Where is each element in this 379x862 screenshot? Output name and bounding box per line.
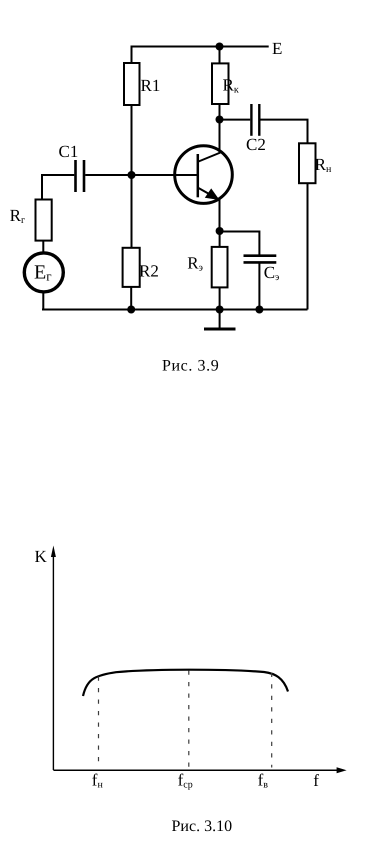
wire R1 bottom to base junction	[131, 105, 133, 175]
svg-text:fср: fср	[178, 771, 193, 791]
wire source to C1	[42, 175, 74, 200]
wire supply top rail	[131, 46, 269, 48]
svg-text:Rг: Rг	[10, 206, 25, 226]
svg-text:Рис. 3.9: Рис. 3.9	[162, 358, 219, 375]
wire R1 top stub	[131, 46, 133, 64]
wire base	[132, 174, 198, 176]
svg-text:Eг: Eг	[34, 262, 52, 284]
svg-text:E: E	[272, 39, 282, 58]
node emitter junction	[216, 227, 224, 235]
svg-text:Rн: Rн	[315, 155, 332, 175]
transistor VT1	[175, 146, 233, 204]
source Eg	[24, 253, 63, 292]
wire emitter node to Re	[219, 231, 221, 247]
svg-text:R2: R2	[139, 262, 159, 281]
resistor Rk	[212, 63, 229, 104]
axis f horizontal	[53, 769, 340, 771]
wire Rg to Eg	[42, 241, 44, 252]
resistor R1	[124, 63, 140, 105]
svg-text:Rэ: Rэ	[187, 254, 203, 274]
wire Ce bottom to rail	[258, 264, 260, 310]
wire emitter node to Ce	[220, 232, 260, 255]
node rail middle junction	[216, 306, 224, 314]
svg-text:C2: C2	[246, 135, 266, 154]
node rail right junction	[255, 306, 263, 314]
wire C1 to base junction	[85, 174, 131, 176]
dashed line fcp	[188, 671, 190, 768]
resistor Rn	[299, 143, 316, 183]
wire Eg bottom to rail	[42, 293, 44, 310]
resistor Re	[212, 247, 228, 288]
resistor R2	[123, 248, 140, 287]
wire Rk bottom to collector node	[219, 104, 221, 120]
svg-text:K: K	[35, 547, 48, 566]
axis K vertical	[52, 553, 54, 770]
capacitor C2	[251, 104, 259, 136]
svg-text:R1: R1	[141, 76, 161, 95]
svg-text:fв: fв	[258, 771, 269, 791]
arrowhead y-axis	[51, 546, 56, 558]
wire emitter down	[219, 199, 221, 231]
svg-text:Cэ: Cэ	[264, 263, 280, 283]
node collector junction	[216, 116, 224, 124]
svg-text:f: f	[313, 771, 319, 790]
capacitor Ce	[244, 256, 277, 263]
node base junction	[128, 171, 136, 179]
node supply junction	[216, 43, 224, 51]
node rail left junction	[127, 306, 135, 314]
wire Rk top stub	[219, 46, 221, 64]
capacitor C1	[76, 160, 85, 192]
wire C2 to Rn top	[261, 120, 308, 144]
curve frequency response	[83, 670, 288, 696]
wire Re bottom to rail	[219, 287, 221, 309]
svg-text:Rк: Rк	[223, 76, 239, 96]
wire bottom rail	[42, 309, 308, 311]
svg-text:C1: C1	[59, 142, 79, 161]
wire Rn bottom to rail corner	[307, 183, 309, 309]
wire collector lead down	[219, 120, 221, 154]
dashed line fv	[271, 673, 273, 768]
resistor Rg	[36, 200, 52, 241]
wire collector node to C2	[220, 119, 251, 121]
svg-text:fн: fн	[92, 771, 104, 791]
svg-text:Рис. 3.10: Рис. 3.10	[172, 818, 233, 835]
wire R2 bottom to rail	[130, 287, 132, 310]
wire base junction down to R2	[131, 175, 133, 248]
arrowhead x-axis	[337, 767, 347, 773]
ground	[204, 310, 236, 330]
dashed line fn	[98, 677, 100, 768]
